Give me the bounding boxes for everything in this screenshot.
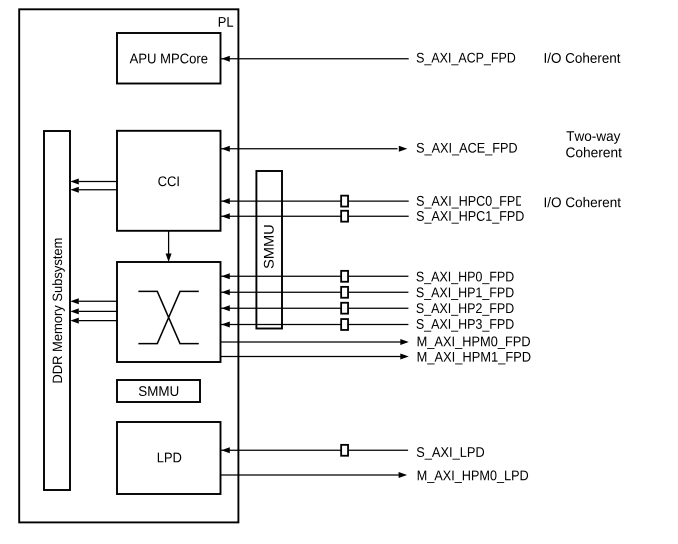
- crossbar X symbol: [138, 291, 198, 343]
- wire CCI to crossbar (vertical): [166, 231, 172, 262]
- wire CCI to DDR (upper): [70, 179, 117, 185]
- wire crossbar to DDR 1: [70, 298, 117, 304]
- block DDR Memory Subsystem: [44, 131, 70, 490]
- wire S_AXI_HP2_FPD: [221, 303, 514, 316]
- wire M_AXI_HPM1_FPD: [221, 352, 531, 364]
- block SMMU (tall, right column): [256, 171, 282, 329]
- wire S_AXI_ACP_FPD: [221, 53, 620, 66]
- block LPD: [117, 422, 221, 494]
- wire S_AXI_HPC0_FPD: [221, 196, 621, 209]
- wire crossbar to DDR 3: [70, 318, 117, 324]
- block APU MPCore: [117, 33, 221, 84]
- wire S_AXI_ACE_FPD (two-way): [221, 131, 622, 157]
- wire S_AXI_LPD: [221, 445, 484, 460]
- wire M_AXI_HPM0_FPD: [221, 336, 530, 349]
- wire S_AXI_HP3_FPD: [221, 319, 514, 332]
- wire S_AXI_HP1_FPD: [221, 287, 514, 300]
- block CCI: [117, 131, 221, 231]
- wire S_AXI_HPC1_FPD: [221, 211, 524, 224]
- wire S_AXI_HP0_FPD: [221, 271, 514, 284]
- block PL (outer boundary): [19, 9, 238, 522]
- block crossbar switch: [117, 262, 221, 362]
- block SMMU (inside PL, small): [117, 380, 200, 402]
- wire CCI to DDR (lower): [70, 187, 117, 193]
- wire M_AXI_HPM0_LPD: [221, 470, 529, 483]
- wire crossbar to DDR 2: [70, 308, 117, 314]
